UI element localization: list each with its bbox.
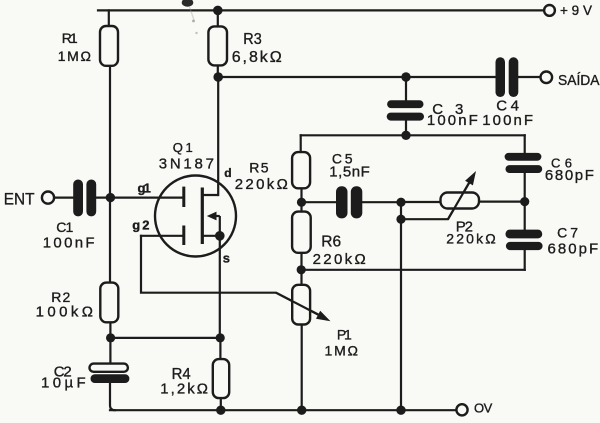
svg-text:R5: R5	[249, 160, 268, 176]
svg-text:220kΩ: 220kΩ	[446, 231, 495, 247]
svg-text:C1: C1	[56, 219, 73, 235]
svg-text:1,2kΩ: 1,2kΩ	[160, 381, 208, 398]
svg-text:680pF: 680pF	[545, 167, 594, 184]
svg-text:220kΩ: 220kΩ	[235, 176, 288, 193]
svg-text:ENT: ENT	[4, 191, 35, 209]
svg-text:Q1: Q1	[173, 140, 193, 155]
svg-text:d: d	[224, 166, 231, 180]
svg-text:s: s	[223, 250, 230, 265]
svg-text:R1: R1	[62, 30, 78, 46]
svg-text:R3: R3	[243, 31, 261, 48]
svg-text:680pF: 680pF	[548, 240, 599, 257]
svg-text:6,8kΩ: 6,8kΩ	[232, 49, 282, 66]
svg-text:3N187: 3N187	[159, 156, 214, 173]
svg-text:100nF: 100nF	[427, 112, 478, 129]
svg-text:OV: OV	[474, 400, 493, 415]
svg-text:100nF: 100nF	[482, 112, 533, 129]
svg-text:R6: R6	[321, 234, 341, 251]
svg-text:100nF: 100nF	[43, 234, 95, 251]
svg-text:220kΩ: 220kΩ	[313, 251, 366, 268]
svg-text:SAÍDA: SAÍDA	[558, 72, 600, 89]
svg-text:1MΩ: 1MΩ	[325, 343, 359, 359]
svg-text:g1: g1	[138, 181, 151, 196]
svg-text:P1: P1	[337, 326, 352, 342]
svg-text:1,5nF: 1,5nF	[329, 163, 370, 180]
svg-text:+9V: +9V	[560, 3, 592, 18]
svg-text:1MΩ: 1MΩ	[58, 48, 91, 64]
